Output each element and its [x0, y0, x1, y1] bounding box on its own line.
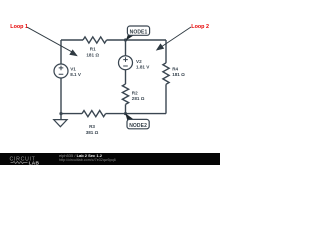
svg-text:181 Ω: 181 Ω	[86, 52, 99, 57]
node NODE1 label box	[126, 26, 150, 40]
wire middle branch NODE1 junction to V2 top	[125, 40, 127, 56]
wire right branch top corner to R4 top	[165, 40, 167, 63]
annotation Loop 1	[10, 24, 78, 56]
junction dot at NODE2	[124, 112, 127, 115]
svg-text:181 Ω: 181 Ω	[172, 72, 185, 77]
svg-text:1.81 V: 1.81 V	[136, 65, 150, 70]
value label R4 181 Ω	[172, 66, 185, 77]
svg-text:NODE2: NODE2	[129, 123, 147, 129]
svg-text:Loop 2: Loop 2	[191, 24, 209, 30]
value label R1 181 Ω	[86, 47, 99, 58]
wire bottom from ground junction to R3 left lead	[61, 113, 82, 115]
footer CircuitLab logo	[10, 156, 40, 166]
value label V1 8.1 V	[70, 67, 82, 78]
wire left branch V1 bottom to ground junction	[60, 78, 62, 114]
svg-text:R4: R4	[172, 66, 178, 71]
wire top from R1 right lead to node NODE1 junction	[107, 39, 126, 41]
svg-text:V1: V1	[70, 67, 76, 72]
resistor R1	[83, 37, 107, 43]
voltage source V2	[119, 56, 133, 70]
value label R2 281 Ω	[132, 91, 145, 102]
wire left branch down to V1 top	[60, 40, 62, 64]
junction dot at NODE1	[124, 38, 127, 41]
value label R3 381 Ω	[86, 124, 99, 135]
svg-text:NODE1: NODE1	[130, 29, 148, 35]
svg-text:LAB: LAB	[29, 160, 40, 165]
resistor R3	[82, 111, 106, 117]
wire middle branch R2 bottom to NODE2 junction	[125, 104, 127, 113]
svg-text:V2: V2	[136, 59, 142, 64]
resistor R4	[163, 63, 169, 84]
node NODE2 label box	[125, 113, 149, 129]
voltage source V1	[54, 64, 68, 78]
wire top from node at (61,40) to R1 left lead	[61, 39, 83, 41]
svg-text:R3: R3	[89, 124, 95, 129]
wire right branch R4 bottom to bottom-right corner	[165, 84, 167, 113]
annotation Loop 2	[156, 24, 209, 51]
svg-text:8.1 V: 8.1 V	[70, 72, 82, 77]
svg-text:R2: R2	[132, 91, 138, 96]
svg-text:http://circuitlab.com/c/7e32qw: http://circuitlab.com/c/7e32qw5pq6	[59, 158, 116, 162]
wire top from NODE1 junction to top-right corner	[126, 39, 167, 41]
svg-text:Loop 1: Loop 1	[10, 24, 28, 30]
footer bar	[0, 153, 220, 165]
wire bottom from NODE2 junction to bottom-right corner	[126, 113, 167, 115]
value label V2 1.81 V	[136, 59, 150, 70]
resistor R2	[122, 84, 128, 104]
svg-text:R1: R1	[90, 47, 96, 52]
wire bottom from R3 right lead to NODE2 junction	[106, 113, 126, 115]
svg-text:281 Ω: 281 Ω	[132, 96, 145, 101]
svg-text:381 Ω: 381 Ω	[86, 130, 99, 135]
ground	[54, 114, 67, 127]
junction dot at ground	[59, 112, 62, 115]
wire middle branch V2 bottom to R2 top	[125, 70, 127, 84]
